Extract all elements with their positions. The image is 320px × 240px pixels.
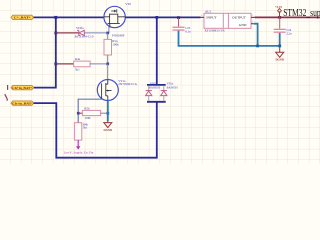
transistor VT1 [97, 79, 138, 101]
wire BAT+ rail to VT0 source [34, 16, 104, 18]
wire diode top bar [147, 84, 166, 86]
wire gnd pin down [254, 24, 258, 46]
svg-text:DGND: DGND [275, 58, 284, 62]
svg-text:+3,3V: +3,3V [275, 5, 283, 9]
ground DGND (regulator) [275, 47, 284, 62]
svg-text:5k1: 5k1 [83, 126, 88, 130]
svg-text:AU1: AU1 [205, 10, 212, 14]
svg-text:VD0a: VD0a [76, 26, 84, 30]
svg-text:BAS8503: BAS8503 [149, 87, 161, 90]
svg-text:2N7002LT1G: 2N7002LT1G [118, 82, 138, 86]
svg-text:R5b: R5b [84, 106, 90, 110]
node output rail junction [278, 16, 281, 19]
node bus/rail junction [54, 16, 57, 19]
svg-text:KF100M33-TR: KF100M33-TR [205, 29, 226, 33]
resistor R4b 5k1 [74, 122, 88, 140]
power +3,3V [275, 5, 283, 18]
wire drain chain to VT1 [107, 64, 109, 80]
port Ch+in_BAT+ [11, 85, 34, 90]
port C+_BAT+ [11, 15, 34, 20]
svg-text:GND: GND [239, 23, 247, 27]
wire BAT+ bus down to port Ch+in [34, 17, 56, 87]
node gate junction [106, 32, 109, 35]
svg-text:BZX384-C10: BZX384-C10 [75, 35, 94, 39]
svg-text:10M: 10M [84, 116, 90, 120]
node R4a-drain junction [106, 63, 109, 66]
node R5b-source junction [107, 112, 110, 115]
diode VD0a BZX384-C10 [75, 26, 94, 38]
node diode bus top junction [155, 16, 158, 19]
switch contact mark [7, 85, 9, 90]
switch lever mark [5, 94, 7, 101]
capacitor C23 0,1u [173, 18, 192, 34]
wire ground run [179, 31, 280, 46]
svg-text:VD1a: VD1a [167, 83, 174, 86]
transistor VT0 [104, 2, 132, 38]
wire port Ch-in to diode bus [34, 102, 157, 158]
svg-text:5k1: 5k1 [75, 67, 80, 71]
diode VD0a zener lead left [56, 32, 79, 34]
node zener-bus junction [54, 32, 57, 35]
svg-text:C+_BAT+: C+_BAT+ [14, 16, 31, 20]
wire diode bus top [156, 17, 158, 85]
resistor R4a 5k1 [56, 57, 108, 71]
wire +3.3V output rail [255, 16, 320, 18]
node C23 tap junction [177, 16, 180, 19]
resistor R5b 10M [78, 106, 108, 119]
svg-text:OUTPUT: OUTPUT [232, 15, 247, 19]
wire VT1 source to ground [107, 100, 109, 121]
regulator AU1 KF100M33-TR [201, 10, 255, 33]
node R4a-bus junction [54, 63, 57, 66]
wire VT0 gate lead [108, 27, 110, 33]
pin 2 gnd [251, 23, 254, 25]
svg-text:Ch+in_BAT+: Ch+in_BAT+ [12, 86, 32, 90]
node LowV_Supply_En_Pin signal arrow [64, 140, 94, 154]
port Ch-in_BAT- [11, 101, 34, 106]
svg-text:100k: 100k [112, 42, 119, 46]
svg-text:PJM038P: PJM038P [112, 33, 125, 37]
svg-text:DGND: DGND [104, 128, 113, 132]
svg-text:VD1b: VD1b [150, 83, 157, 86]
wire diode bottom bar [147, 101, 166, 103]
node gate/R5b junction [77, 112, 80, 115]
svg-text:INPUT: INPUT [206, 15, 217, 19]
pin 1 input [201, 16, 204, 18]
diode VD1b BAS8503 [146, 83, 161, 102]
capacitor C24 2,2u [274, 17, 292, 36]
wire VT0 drain to regulator input [125, 16, 200, 18]
svg-text:Ch-in_BAT-: Ch-in_BAT- [12, 101, 32, 105]
resistor R5a 100k [104, 33, 119, 64]
wire zener to gate node [84, 32, 107, 34]
ground DGND (VT1) [104, 121, 113, 132]
wire VT1 gate [78, 99, 101, 123]
pin 3 output [251, 16, 255, 18]
svg-text:R4a: R4a [75, 57, 81, 61]
svg-text:LowV_Supply_En_Pin: LowV_Supply_En_Pin [64, 150, 94, 154]
node gnd corner junction [278, 45, 281, 48]
svg-text:STM32_sup: STM32_sup [283, 8, 320, 19]
node gnd junction [256, 45, 259, 48]
diode VD1a BAS8503 [161, 83, 179, 102]
svg-text:VT0: VT0 [125, 2, 131, 6]
svg-text:BAS8503: BAS8503 [167, 87, 179, 90]
